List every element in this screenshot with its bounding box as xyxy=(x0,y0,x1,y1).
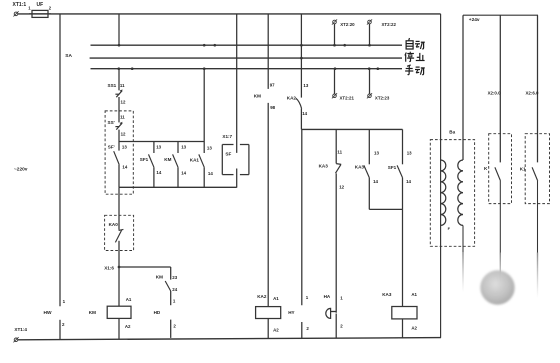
svg-text:13: 13 xyxy=(303,83,308,88)
wire SA line manual xyxy=(91,68,403,70)
wire SS'-node xyxy=(119,130,126,151)
wire HD to rail xyxy=(170,320,172,338)
svg-text:A2: A2 xyxy=(125,324,131,329)
wire KM coil to rail xyxy=(118,318,120,338)
wire sub bus xyxy=(301,128,402,130)
svg-text:12: 12 xyxy=(339,185,344,190)
svg-text:11: 11 xyxy=(120,83,125,88)
wire KA2 coil to rail xyxy=(267,319,269,339)
svg-text:XT2:23: XT2:23 xyxy=(375,95,390,100)
svg-text:X1:6: X1:6 xyxy=(104,266,114,271)
svg-text:XT1:1: XT1:1 xyxy=(13,2,27,8)
svg-text:HD: HD xyxy=(154,310,161,315)
enclosure dashed box K1 xyxy=(525,134,549,204)
svg-text:KA0: KA0 xyxy=(109,222,119,227)
contact SF1 NO xyxy=(140,142,162,188)
svg-text:11: 11 xyxy=(337,149,342,154)
svg-text:KA3: KA3 xyxy=(355,165,365,170)
svg-text:KM: KM xyxy=(89,310,96,315)
svg-text:14: 14 xyxy=(373,179,378,184)
label auto (zi dong) xyxy=(406,38,425,49)
wire x119 mid xyxy=(118,187,120,230)
transformer primary winding xyxy=(441,160,446,225)
svg-text:KM: KM xyxy=(254,94,261,99)
svg-text:13: 13 xyxy=(122,144,127,149)
wire x119 from line3 xyxy=(118,69,120,91)
buzzer HA xyxy=(324,294,344,329)
wire K1 down fading xyxy=(537,181,539,298)
wire secondary up xyxy=(462,15,464,160)
connector X1:7 label xyxy=(222,134,232,139)
wire to KA3 coil xyxy=(402,209,404,306)
contact SF1 NO second xyxy=(388,129,412,209)
svg-text:Ba: Ba xyxy=(449,129,455,134)
svg-text:XT2:20: XT2:20 xyxy=(340,22,355,27)
svg-text:13: 13 xyxy=(374,151,379,156)
lamp HD xyxy=(154,310,177,328)
svg-text:K1: K1 xyxy=(520,166,526,171)
terminal XT2:22 xyxy=(367,19,397,45)
svg-text:KA3: KA3 xyxy=(382,292,392,297)
contact KM NO 23/24 xyxy=(156,267,178,305)
wire x336 from bus xyxy=(335,129,337,163)
svg-text:SF': SF' xyxy=(108,145,115,150)
contact K NO xyxy=(484,166,501,181)
svg-text:11: 11 xyxy=(120,115,125,120)
svg-text:XT2:21: XT2:21 xyxy=(340,95,355,100)
wire SF' down xyxy=(118,165,120,188)
svg-text:X2:6.0: X2:6.0 xyxy=(526,91,539,96)
terminal XT1:4 xyxy=(13,327,27,342)
button SF enclosure xyxy=(222,145,249,175)
wire left branch xyxy=(59,14,61,306)
label stop (ting zhi) xyxy=(405,52,425,62)
svg-text:~220v: ~220v xyxy=(14,166,28,172)
contact KM 97/98 xyxy=(254,83,276,110)
wire +24v branch1 xyxy=(488,15,501,162)
svg-text:KA2: KA2 xyxy=(257,294,267,299)
watermark sphere xyxy=(480,270,514,304)
svg-text:KM: KM xyxy=(164,157,171,162)
lamp HY branch wire xyxy=(301,129,303,305)
svg-text:KA1: KA1 xyxy=(190,157,200,162)
terminal XT2:23 xyxy=(367,69,390,101)
wire SS1-SS' xyxy=(119,97,126,122)
lamp HY xyxy=(288,295,309,331)
contact K1 NO xyxy=(520,166,538,181)
contact KA2 NO xyxy=(287,83,309,116)
pushbutton SS1 xyxy=(108,83,126,97)
contact KA0 NO xyxy=(109,222,124,242)
node X1:6 xyxy=(104,266,171,271)
wire K down fading xyxy=(499,181,501,298)
junction dot line2 xyxy=(300,57,303,60)
contact KA3 NC xyxy=(319,149,345,189)
wire KA3 coil to rail xyxy=(402,319,404,338)
svg-text:A2: A2 xyxy=(273,328,279,333)
wire x268 down xyxy=(267,103,269,307)
svg-text:A1: A1 xyxy=(126,297,132,302)
relay coil KA3 xyxy=(382,292,417,331)
lamp HW xyxy=(44,299,66,327)
svg-text:X2:0.0: X2:0.0 xyxy=(488,91,501,96)
svg-text:14: 14 xyxy=(156,170,161,175)
svg-text:97: 97 xyxy=(270,83,275,88)
wire SF down xyxy=(236,169,238,188)
svg-text:KA3: KA3 xyxy=(319,163,329,168)
svg-text:24: 24 xyxy=(172,287,177,292)
wire secondary down fading xyxy=(462,225,464,292)
wire x119 top xyxy=(118,14,120,45)
pushbutton SS' xyxy=(108,115,126,130)
wire x301 top xyxy=(300,14,302,98)
wire top rail xyxy=(18,13,441,15)
enclosure dashed box K xyxy=(489,134,512,204)
wire KA0 down xyxy=(118,241,120,306)
svg-text:14: 14 xyxy=(406,179,411,184)
fuse UF xyxy=(28,2,52,17)
svg-text:+24v: +24v xyxy=(469,17,480,23)
enclosure dashed box KA0 xyxy=(105,215,134,250)
svg-text:13: 13 xyxy=(181,145,186,150)
selector switch SA label xyxy=(65,53,72,59)
svg-text:HW: HW xyxy=(44,310,52,316)
svg-text:12: 12 xyxy=(121,131,126,136)
wire x301 to bus xyxy=(300,109,302,130)
svg-text:SF1: SF1 xyxy=(388,165,397,170)
junction dots line1 xyxy=(118,44,371,47)
relay coil KA2 xyxy=(256,294,281,332)
contact SF' NO xyxy=(108,144,128,169)
wire HA to rail xyxy=(335,314,337,339)
wire block bottom bus xyxy=(119,186,237,188)
terminal XT2:21 xyxy=(332,69,355,101)
wire HY to rail xyxy=(301,322,303,339)
terminal XT2:20 xyxy=(332,19,355,45)
svg-text:SS': SS' xyxy=(108,120,115,125)
wire x237 drop xyxy=(236,14,238,153)
wire SA line stop xyxy=(90,57,402,59)
svg-text:13: 13 xyxy=(156,145,161,150)
junction dots line3 xyxy=(117,67,379,70)
svg-text:14: 14 xyxy=(302,111,307,116)
contact KA3 NO xyxy=(355,129,380,209)
svg-text:A2: A2 xyxy=(411,326,417,331)
label manual (shou dong) xyxy=(405,65,425,75)
svg-text:14: 14 xyxy=(122,164,127,169)
wire right frame xyxy=(440,14,442,338)
svg-text:SF: SF xyxy=(225,152,231,157)
svg-text:14: 14 xyxy=(208,171,213,176)
svg-text:13: 13 xyxy=(407,151,412,156)
svg-text:XT2:22: XT2:22 xyxy=(382,22,397,27)
svg-text:XT1:4: XT1:4 xyxy=(14,327,27,332)
contactor coil KM xyxy=(89,297,132,329)
wire merge bus xyxy=(369,208,402,210)
svg-text:X1:7: X1:7 xyxy=(222,134,232,139)
wire SA line auto xyxy=(91,44,403,46)
svg-text:UF: UF xyxy=(37,2,44,8)
svg-text:13: 13 xyxy=(207,145,212,150)
svg-text:23: 23 xyxy=(172,275,177,280)
svg-text:98: 98 xyxy=(270,105,275,110)
svg-text:14: 14 xyxy=(181,170,186,175)
svg-text:SS1: SS1 xyxy=(108,83,117,88)
node ~220v label xyxy=(14,166,28,172)
svg-text:KA2: KA2 xyxy=(287,96,297,101)
contact KM NO aux xyxy=(164,142,186,188)
wire bottom rail xyxy=(18,338,441,340)
svg-text:KM: KM xyxy=(156,275,163,280)
svg-text:A1: A1 xyxy=(273,296,279,301)
svg-text:12: 12 xyxy=(121,100,126,105)
svg-text:SA: SA xyxy=(65,53,72,59)
wire HW to bottom rail xyxy=(59,320,61,340)
wire block top bus xyxy=(119,141,204,143)
svg-text:A1: A1 xyxy=(411,292,417,297)
svg-text:HA: HA xyxy=(324,294,331,299)
wire x336 down xyxy=(335,173,337,312)
net +24v rail xyxy=(463,15,538,23)
wire +24v branch2 xyxy=(526,15,539,162)
transformer secondary winding xyxy=(448,160,463,231)
svg-text:SF1: SF1 xyxy=(140,157,149,162)
contact KA1 NO xyxy=(190,69,214,188)
svg-text:HY: HY xyxy=(288,310,294,315)
wire x268 top xyxy=(267,14,269,89)
transformer Ba box xyxy=(430,129,474,246)
terminal XT1:1 xyxy=(13,2,27,17)
enclosure dashed box SS'/SF' xyxy=(105,111,133,194)
